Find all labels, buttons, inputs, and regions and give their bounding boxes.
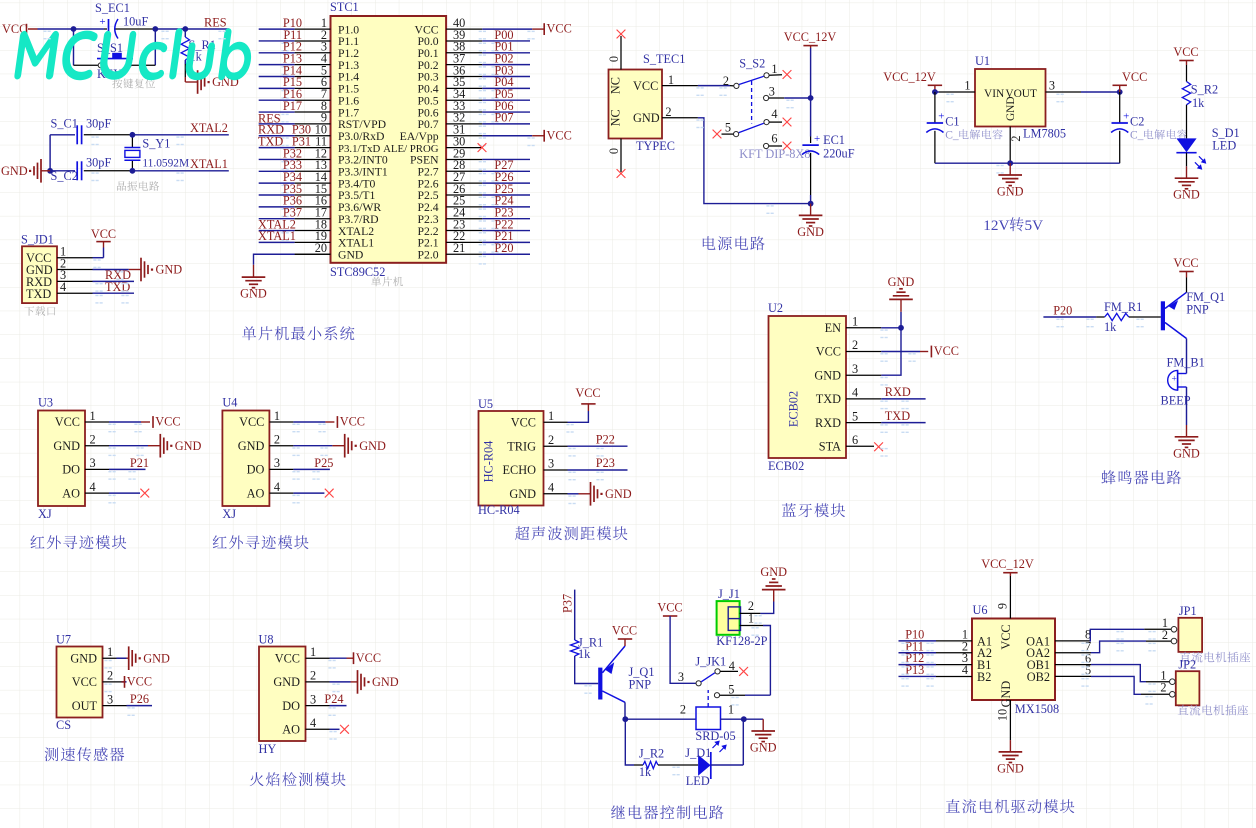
pin 4 J_JK1 no connect [720, 659, 748, 676]
label C_电解电容 at C1 [945, 129, 1003, 141]
ground GND U4 [345, 434, 386, 458]
svg-text:GND: GND [273, 675, 300, 689]
pin names U6 [977, 624, 1050, 707]
pin 4 AO no connect U3 [85, 480, 149, 498]
svg-text:GND: GND [70, 651, 97, 665]
svg-text:AO: AO [282, 723, 300, 737]
svg-text:4: 4 [90, 480, 96, 494]
svg-text:2: 2 [310, 669, 316, 683]
svg-text:DO: DO [247, 463, 265, 477]
svg-text:VCC: VCC [1173, 256, 1198, 270]
svg-text:EA/Vpp: EA/Vpp [400, 130, 439, 143]
pin 1 JP1 [1144, 616, 1176, 632]
junction B [152, 26, 158, 32]
wire GND return from S_TEC1 pin 2 [662, 105, 811, 204]
wire XTAL2 net [50, 134, 229, 136]
ground GND motor [997, 740, 1024, 775]
resistor S_R2 1k [1182, 65, 1218, 110]
svg-text:4: 4 [274, 480, 280, 494]
svg-text:VCC: VCC [91, 227, 116, 241]
svg-text:3: 3 [678, 670, 684, 684]
svg-text:30pF: 30pF [86, 117, 111, 131]
svg-text:EC1: EC1 [823, 133, 845, 147]
svg-text:XJ: XJ [222, 507, 236, 521]
ground GND MCU [240, 265, 267, 301]
label 蓝牙模块 [782, 503, 845, 517]
ground GND U5 [591, 482, 632, 506]
module U3 XJ box [38, 396, 85, 522]
label 蜂鸣器电路 [1101, 470, 1181, 484]
svg-text:U4: U4 [222, 396, 237, 410]
power port VCC relay switch [657, 601, 682, 617]
svg-text:4: 4 [310, 716, 316, 730]
svg-text:+: + [1123, 111, 1129, 123]
pin names U3 [53, 415, 80, 500]
svg-text:XJ: XJ [38, 507, 52, 521]
driver U6 MX1508 box [972, 603, 1059, 716]
svg-text:11.0592M: 11.0592M [142, 157, 189, 169]
svg-text:1: 1 [748, 612, 754, 626]
svg-text:GND: GND [1, 164, 28, 178]
svg-text:220uF: 220uF [823, 147, 855, 161]
svg-text:4: 4 [60, 280, 66, 294]
svg-text:VCC: VCC [547, 128, 572, 142]
svg-text:GND: GND [359, 439, 386, 453]
no connect pin30 [478, 143, 487, 152]
pin 9 wire VCC_12V [995, 576, 1010, 619]
grid snap marks [43, 31, 1155, 776]
svg-text:JP1: JP1 [1179, 604, 1197, 618]
pin 5 S_S2 no connect [713, 121, 734, 139]
resistor FM_R1 1k [1096, 300, 1142, 334]
svg-text:30pF: 30pF [86, 156, 111, 170]
svg-text:12V: 12V [983, 217, 1009, 234]
svg-text:20: 20 [315, 241, 327, 255]
svg-text:1: 1 [90, 409, 96, 423]
svg-text:S_EC1: S_EC1 [95, 1, 130, 15]
junction A [71, 26, 77, 32]
ground GND J_J1 [760, 565, 787, 590]
svg-text:VCC: VCC [816, 345, 841, 359]
svg-text:TXD: TXD [258, 134, 283, 148]
svg-text:VCC: VCC [275, 651, 300, 665]
svg-text:VCC: VCC [999, 624, 1013, 649]
svg-text:4: 4 [962, 663, 968, 677]
pin 4 wire TXD [57, 280, 134, 294]
wire coil right [721, 703, 744, 720]
svg-text:1k: 1k [1192, 96, 1205, 110]
wire S_R2 to LED [1186, 105, 1188, 139]
ground GND 12V5V [997, 163, 1024, 198]
svg-text:SRD-05: SRD-05 [695, 729, 735, 743]
svg-text:GND: GND [509, 487, 536, 501]
svg-text:S_Y1: S_Y1 [142, 136, 170, 150]
label 红外寻迹模块 U4 [213, 535, 309, 549]
wire VCC rail to RES [28, 28, 229, 30]
ground GND U8 [358, 670, 399, 694]
connector S_JD1 [21, 233, 57, 304]
svg-text:U3: U3 [38, 396, 53, 410]
svg-text:4: 4 [548, 480, 554, 494]
svg-text:GND: GND [338, 248, 363, 261]
svg-text:JP2: JP2 [1178, 658, 1196, 672]
svg-text:LM7805: LM7805 [1023, 127, 1066, 141]
net labels right STC1 [494, 28, 513, 255]
svg-text:P22: P22 [596, 432, 615, 446]
svg-text:GND: GND [1005, 96, 1017, 121]
svg-text:P07: P07 [494, 111, 513, 125]
svg-text:J_JK1: J_JK1 [695, 655, 726, 669]
pin 3 GND wire [846, 362, 881, 376]
pin names U7 [70, 651, 97, 712]
svg-text:NC: NC [609, 109, 623, 126]
LED S_D1 [1176, 126, 1239, 170]
svg-text:CS: CS [56, 718, 71, 732]
connector S_TEC1 TYPEC [609, 52, 686, 153]
svg-text:5: 5 [852, 409, 858, 423]
pin 1 VCC wire U3 [85, 409, 150, 423]
svg-text:RES: RES [204, 16, 227, 30]
pin 4 TXD wire net RXD [846, 385, 926, 399]
svg-text:10uF: 10uF [123, 15, 148, 29]
pin names U5 [482, 416, 537, 501]
svg-text:HY: HY [259, 742, 277, 756]
junction EN-GND [898, 325, 904, 331]
svg-text:GND: GND [633, 111, 660, 125]
junction S_S2 rail [808, 95, 814, 101]
ground GND bluetooth [888, 275, 915, 300]
svg-text:S_C2: S_C2 [51, 169, 78, 183]
ground GND buzzer [1173, 425, 1200, 460]
junction GND 12V5V [1007, 160, 1013, 166]
wire XTAL1 net [50, 170, 229, 172]
microcontroller U? STC1 STC89C52 box [330, 0, 446, 279]
svg-text:1: 1 [107, 645, 113, 659]
pin 10 wire GND [995, 700, 1010, 740]
pin names S_JD1 [26, 251, 53, 301]
pin names U4 [238, 415, 265, 500]
svg-text:4: 4 [771, 107, 777, 121]
pin 5 J_JK1 wire [720, 683, 771, 697]
svg-text:+: + [814, 133, 820, 145]
svg-text:OB2: OB2 [1027, 670, 1050, 684]
svg-text:0: 0 [607, 148, 621, 154]
pin names U1 [984, 88, 1037, 121]
ground GND power circuit [797, 204, 824, 239]
svg-text:1: 1 [310, 645, 316, 659]
power port VCC LED [1173, 45, 1198, 65]
crystal S_Y1 11.0592M [124, 135, 189, 171]
svg-text:VCC: VCC [547, 22, 572, 36]
pin 6 STA no connect [846, 433, 883, 451]
pin 8 wire OA1 to JP1-1 [1055, 628, 1144, 642]
svg-text:1: 1 [668, 73, 674, 87]
svg-text:GND: GND [605, 487, 632, 501]
svg-text:VCC: VCC [1122, 70, 1147, 84]
regulator U1 LM7805 [975, 54, 1066, 141]
svg-text:FM_R1: FM_R1 [1104, 300, 1142, 314]
pins 1-4 wires P10-P13 [899, 628, 973, 678]
svg-text:DO: DO [62, 463, 80, 477]
module U2 ECB02 box [768, 301, 846, 473]
svg-text:TXD: TXD [105, 280, 130, 294]
svg-text:PNP: PNP [1186, 303, 1209, 317]
svg-text:TXD: TXD [816, 392, 841, 406]
connector JP2 [1176, 658, 1200, 706]
svg-text:S_C1: S_C1 [51, 117, 78, 131]
pin 1 VCC wire U8 [306, 645, 354, 659]
svg-text:STC1: STC1 [330, 0, 359, 14]
svg-text:GND: GND [888, 275, 915, 289]
svg-text:GND: GND [238, 439, 265, 453]
svg-text:VCC: VCC [72, 675, 97, 689]
pin 3 ECHO wire U5 [544, 456, 628, 471]
svg-text:FM_B1: FM_B1 [1167, 356, 1205, 370]
wire EN junction up to GND symbol [900, 299, 902, 327]
pin 3 DO wire U8 [306, 692, 347, 706]
capacitor S_C2 30pF [51, 156, 112, 184]
wire GND pin20 [254, 254, 331, 265]
module U5 HC-R04 box [478, 397, 544, 517]
pins right STC1 with numbers [446, 16, 482, 255]
svg-text:VCC: VCC [356, 651, 381, 665]
svg-text:S_JD1: S_JD1 [21, 233, 54, 247]
relay coil SRD-05 [695, 690, 735, 752]
svg-text:VCC: VCC [127, 675, 152, 689]
svg-text:3: 3 [90, 456, 96, 470]
svg-text:NC: NC [609, 77, 623, 94]
svg-text:1: 1 [548, 409, 554, 423]
svg-text:C_: C_ [1130, 130, 1144, 142]
svg-text:XTAL1: XTAL1 [258, 229, 296, 243]
wire cap join [49, 135, 51, 171]
svg-text:KFT DIP-8X8: KFT DIP-8X8 [739, 147, 810, 161]
svg-text:3: 3 [852, 362, 858, 376]
svg-text:S_R2: S_R2 [1191, 83, 1218, 97]
svg-text:TXD: TXD [26, 287, 51, 301]
svg-text:GND: GND [1173, 188, 1200, 202]
label 直流电机插座 JP2 [1178, 705, 1248, 716]
svg-text:GND: GND [1173, 446, 1200, 460]
svg-text:10: 10 [995, 709, 1009, 721]
wire bottom rail 12V5V [935, 162, 1120, 164]
power port VCC pin40 [544, 22, 572, 36]
pin 1 VCC wire to switch [662, 73, 734, 88]
svg-text:P25: P25 [314, 456, 333, 470]
pin 3 wire RXD [57, 268, 134, 282]
svg-text:LED: LED [686, 774, 710, 788]
svg-text:RXD: RXD [815, 416, 841, 430]
svg-text:VCC_12V: VCC_12V [784, 30, 837, 44]
svg-text:HC-R04: HC-R04 [478, 503, 520, 517]
svg-text:C1: C1 [945, 115, 959, 129]
capacitor C2 electrolytic [1111, 92, 1144, 163]
svg-text:B2: B2 [977, 670, 991, 684]
svg-text:GND: GND [814, 368, 841, 382]
label 继电器控制电路 [611, 805, 723, 819]
pins left STC1 with numbers [295, 16, 331, 255]
svg-text:6: 6 [771, 132, 777, 146]
label 测速传感器 [45, 747, 125, 761]
junction XTAL1-C2 [47, 168, 53, 174]
pin 1 EN wire [846, 315, 901, 329]
label 下载口 [24, 306, 55, 316]
svg-text:3: 3 [548, 457, 554, 471]
pin names S_TEC1 [609, 77, 660, 126]
power port VCC [2, 22, 27, 36]
junction C [182, 26, 188, 32]
ground GND crystal [1, 159, 50, 183]
wires left STC1 [259, 29, 295, 242]
resistor S_R1 1k [181, 29, 216, 64]
net label P37 vertical wire [561, 590, 575, 640]
pin 1 GND wire U7 [103, 645, 129, 659]
svg-text:GND: GND [156, 263, 183, 277]
svg-text:VCC: VCC [239, 415, 264, 429]
svg-text:P26: P26 [130, 692, 149, 706]
svg-text:GND: GND [372, 675, 399, 689]
svg-text:TYPEC: TYPEC [636, 139, 675, 153]
pin 2 JP2 [1141, 681, 1175, 698]
ground GND U7 [129, 646, 170, 670]
connector JP1 [1178, 604, 1202, 652]
junction collector node [622, 716, 628, 722]
svg-text:ECB02: ECB02 [787, 391, 801, 427]
svg-text:LED: LED [1212, 139, 1236, 153]
label 超声波测距模块 [515, 526, 627, 540]
resistor J_R2 1k [634, 747, 664, 780]
net label XTAL2 [190, 121, 228, 135]
svg-text:RXD: RXD [885, 385, 911, 399]
svg-text:1k: 1k [1104, 320, 1117, 334]
wire EN junction down to GND pin [881, 328, 901, 375]
wire VCC to switch pole [670, 616, 696, 684]
pin 2 J_J1 wire to GND [740, 590, 774, 614]
svg-text:S_S2: S_S2 [739, 57, 765, 71]
wire J_R1 to base [575, 656, 599, 684]
power port VCC pin31 [544, 128, 572, 142]
logo MCUclub [14, 28, 256, 80]
connector J_J1 KF128-2P [716, 587, 767, 648]
pin 2 wire U1 down [1009, 127, 1023, 164]
svg-text:EN: EN [825, 321, 842, 335]
svg-text:1: 1 [771, 62, 777, 76]
label 晶振电路 [117, 181, 159, 191]
junction C1 top [932, 89, 938, 95]
pin 4 GND wire U5 [544, 480, 591, 494]
pin 4 AO no connect U4 [269, 480, 333, 498]
power port VCC at S_JD1 [91, 227, 116, 242]
buzzer FM_B1 BEEP [1161, 356, 1205, 408]
svg-text:P3.0/RxD: P3.0/RxD [338, 130, 384, 143]
svg-text:3: 3 [310, 692, 316, 706]
svg-text:ECB02: ECB02 [768, 459, 804, 473]
wire VCC_12V rail down [810, 48, 812, 137]
svg-text:VCC: VCC [633, 79, 658, 93]
pin 1 J_J1 wire to switch pin 5 [740, 612, 771, 696]
power port VCC at U1 out [1113, 70, 1148, 92]
svg-text:2: 2 [548, 433, 554, 447]
junction XTAL2-Y1 [130, 132, 136, 138]
net label P20 wire [1043, 304, 1096, 318]
svg-text:U6: U6 [973, 603, 988, 617]
pin 3 DO wire U3 [85, 456, 149, 470]
switch S_S2 [734, 57, 770, 149]
svg-text:1: 1 [852, 315, 858, 329]
svg-text:KF128-2P: KF128-2P [716, 634, 767, 648]
svg-text:P31: P31 [292, 134, 311, 148]
pin 2 VCC wire U7 [103, 669, 127, 683]
svg-text:P20: P20 [494, 241, 513, 255]
svg-text:GND: GND [240, 287, 267, 301]
svg-text:VCC: VCC [155, 415, 180, 429]
wire collector to buzzer [1186, 339, 1188, 374]
power port VCC U5 [575, 386, 600, 404]
label 单片机最小系统 [242, 326, 354, 340]
svg-text:J_D1: J_D1 [685, 746, 711, 760]
svg-text:0: 0 [607, 56, 621, 62]
transistor J_Q1 PNP [598, 646, 654, 702]
svg-text:VCC: VCC [511, 416, 536, 430]
svg-text:U2: U2 [768, 301, 783, 315]
pin 5 RXD wire net TXD [846, 409, 926, 423]
label 直流电机驱动模块 [946, 799, 1075, 813]
svg-text:OUT: OUT [72, 699, 98, 713]
pin 5 wire OB2 to JP2-2 [1055, 663, 1141, 694]
svg-text:VCC_12V: VCC_12V [883, 70, 936, 84]
pin 1 S_S2 no connect [769, 62, 791, 79]
svg-text:P24: P24 [324, 692, 343, 706]
svg-text:3: 3 [107, 692, 113, 706]
power port VCC bluetooth [931, 344, 959, 358]
wire switch left [74, 29, 99, 65]
svg-text:VCC: VCC [1173, 45, 1198, 59]
net labels left STC1 [258, 16, 311, 243]
svg-text:STC89C52: STC89C52 [330, 265, 385, 279]
net label XTAL1 [190, 157, 228, 171]
junction GND rail [808, 201, 814, 207]
power port VCC relay transistor [612, 624, 637, 647]
svg-text:2: 2 [1160, 681, 1166, 695]
wire S_R1 to GND [185, 60, 197, 82]
pin 1 VCC wire U5 [544, 404, 589, 423]
svg-text:ECHO: ECHO [503, 463, 537, 477]
capacitor S_EC1 [95, 1, 148, 39]
svg-text:VCC_12V: VCC_12V [981, 557, 1034, 571]
pin 1 wire U1 [935, 79, 975, 93]
svg-text:2: 2 [680, 703, 686, 717]
svg-text:2: 2 [665, 105, 671, 119]
svg-text:3: 3 [274, 456, 280, 470]
svg-text:2: 2 [852, 338, 858, 352]
pin 2 GND wire U8 [306, 669, 358, 683]
svg-text:2: 2 [1162, 628, 1168, 642]
wire LED to coil node [711, 719, 744, 765]
svg-text:XTAL1: XTAL1 [190, 157, 228, 171]
ground GND relay [750, 719, 777, 754]
pin 1 VCC wire U4 [269, 409, 334, 423]
pushbutton S1 KEY [97, 41, 133, 81]
pin 2 VCC wire [846, 338, 928, 352]
svg-text:VIN: VIN [984, 88, 1004, 100]
label 12V转5V [983, 217, 1043, 234]
wires right STC1 [479, 29, 545, 265]
pin 0 bottom S_TEC1 with no connect [607, 139, 625, 178]
svg-text:21: 21 [453, 241, 465, 255]
svg-text:VCC: VCC [575, 386, 600, 400]
power port VCC buzzer [1173, 256, 1198, 272]
module U8 HY box [259, 633, 306, 757]
